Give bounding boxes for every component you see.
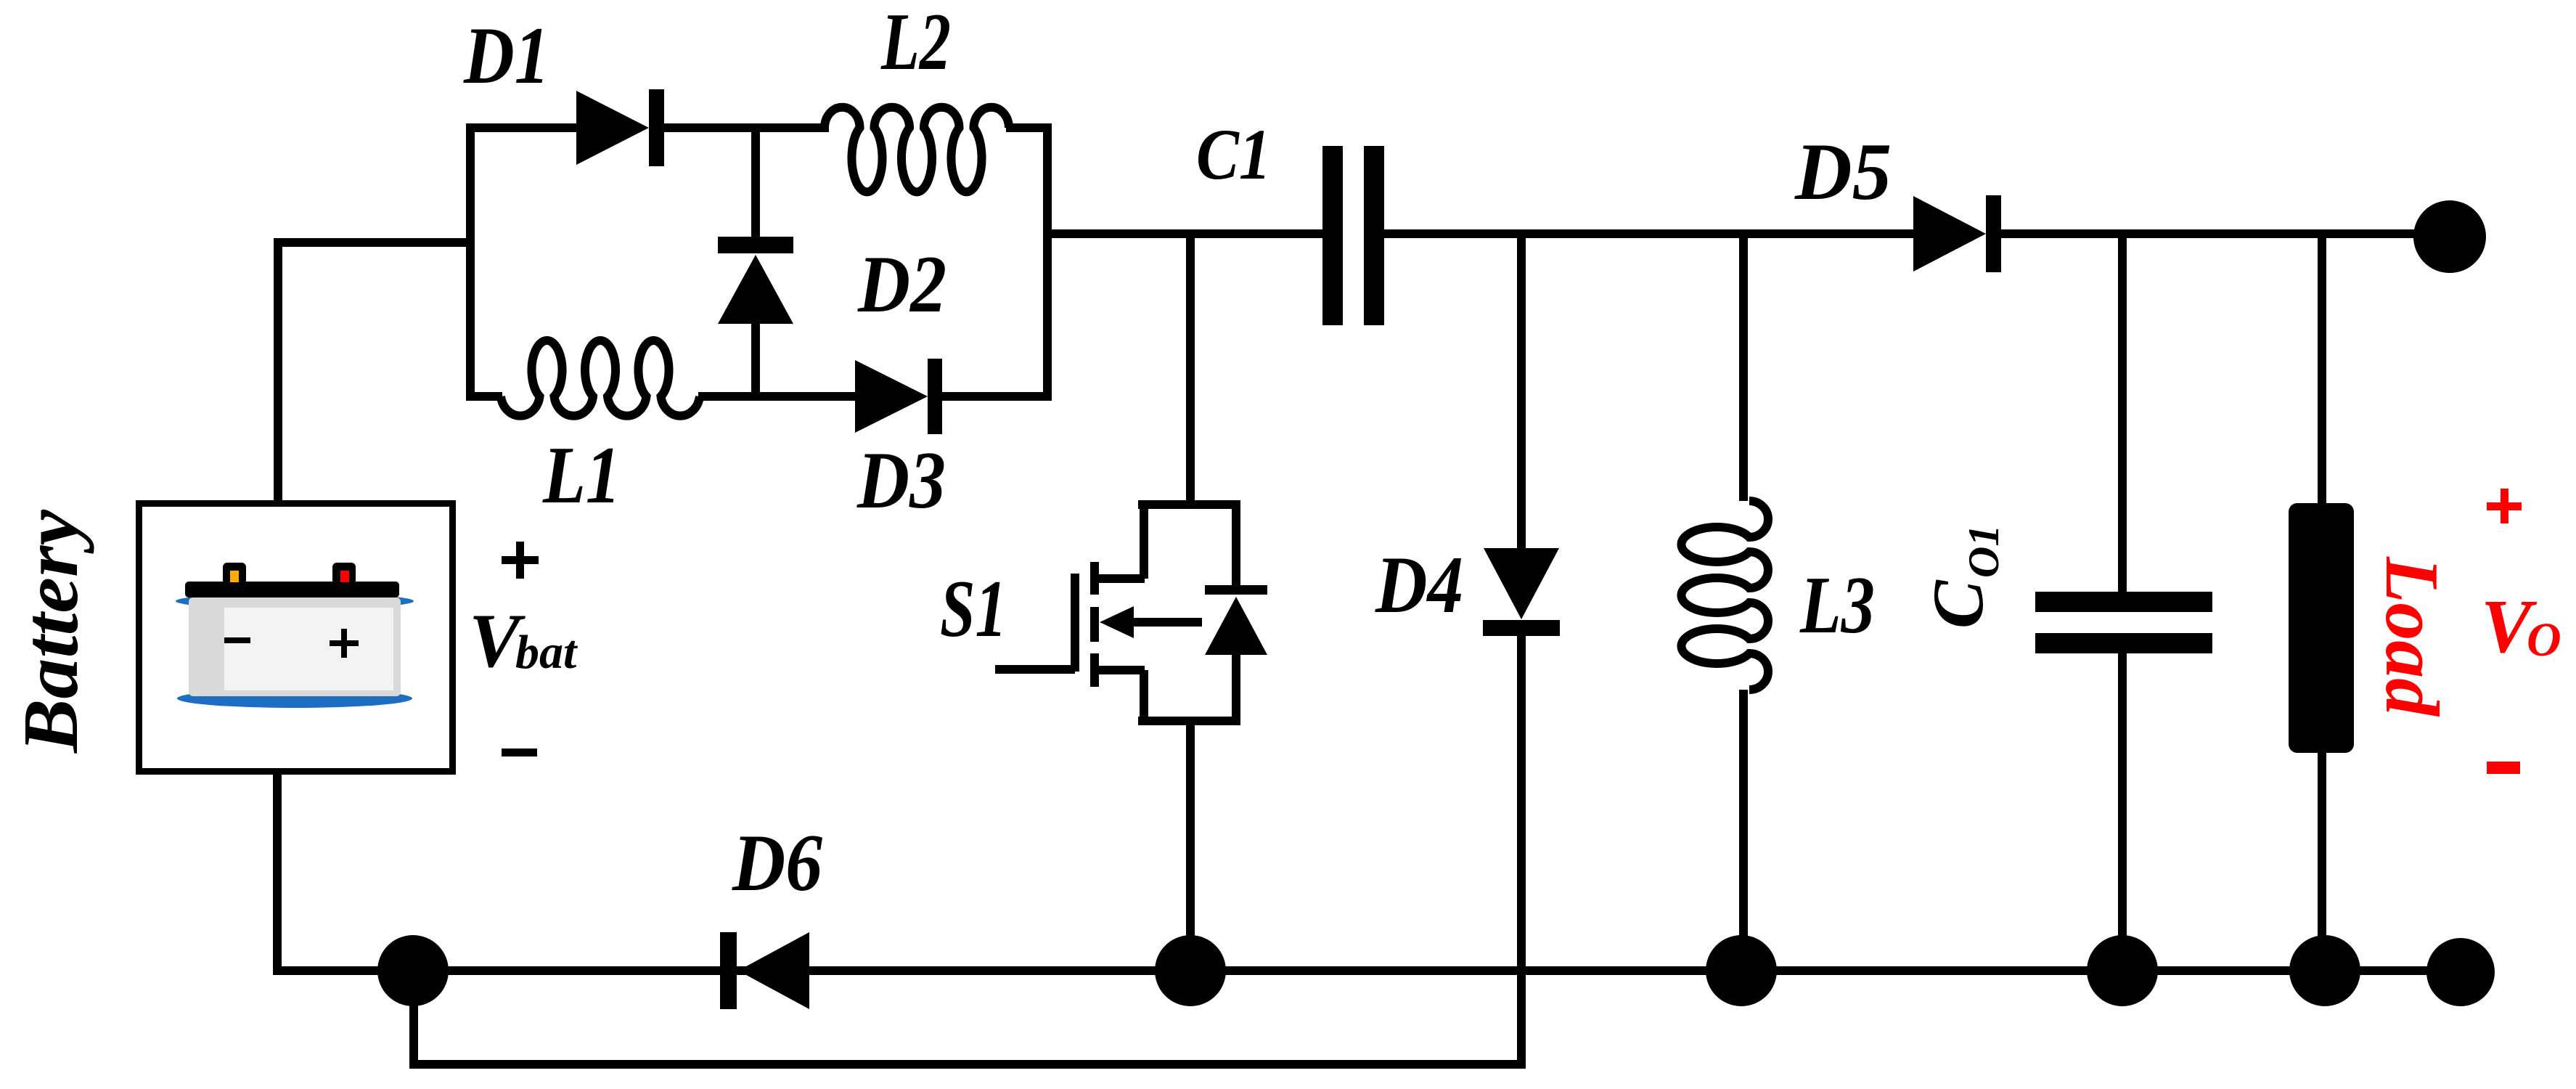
wire L2 to right vertical (1006, 123, 1052, 132)
svg-text:O1: O1 (1960, 525, 2008, 578)
wire load bottom vertical (2318, 748, 2326, 974)
svg-text:L3: L3 (1799, 560, 1875, 650)
svg-text:D3: D3 (856, 436, 946, 526)
label Vo plus (2487, 502, 2522, 510)
diode D4 (1484, 548, 1559, 619)
wire Co1 bottom vertical (2118, 651, 2127, 974)
svg-text:C1: C1 (1196, 114, 1271, 195)
transistor S1 top left leg (1140, 500, 1148, 579)
svg-text:bat: bat (515, 626, 578, 679)
transistor S1 channel segment top (1090, 562, 1099, 595)
diode D6 (720, 932, 737, 1009)
wire L3 top vertical (1739, 229, 1748, 501)
transistor S1 drain contact (1097, 574, 1145, 583)
svg-text:D1: D1 (463, 11, 549, 101)
junction battery bus (377, 935, 449, 1006)
capacitor C1 (1322, 146, 1343, 325)
wire L3 bottom vertical (1739, 690, 1748, 974)
transistor S1 channel segment mid (1090, 607, 1099, 642)
label Load (2370, 556, 2455, 717)
wire bottom return (414, 1060, 1526, 1069)
svg-text:D2: D2 (857, 240, 946, 330)
wire cell1 right vertical (1043, 123, 1052, 400)
wire D4 top vertical (1517, 229, 1526, 552)
wire battery feed horizontal (274, 238, 475, 247)
wire cell1 left vertical (466, 123, 475, 401)
wire battery bottom vertical (273, 772, 282, 975)
diode D5 (1913, 196, 1986, 272)
wire D1 to L2 with D2 tap (663, 123, 829, 132)
wire battery dot drop (409, 974, 418, 1069)
diode D2 (718, 237, 793, 253)
svg-text:L2: L2 (880, 0, 951, 87)
wire main bus segment 3 (2000, 229, 2417, 238)
diode D1 (576, 91, 649, 165)
svg-text:D4: D4 (1375, 540, 1463, 630)
svg-text:Battery: Battery (8, 509, 94, 754)
wire S1 gate lead (995, 665, 1075, 674)
label battery plus (502, 556, 539, 564)
wire S1 source (1186, 721, 1195, 974)
wire battery top vertical (274, 238, 282, 506)
wire S1 drain (1186, 229, 1195, 505)
wire D2 bottom vertical (751, 324, 760, 401)
transistor S1 body diode cathode wire (1232, 500, 1240, 590)
svg-text:O: O (2527, 613, 2561, 666)
wire D3 to right vertical (941, 392, 1052, 401)
transistor S1 substrate arrow (1124, 618, 1202, 627)
label battery minus (502, 749, 537, 756)
wire Co1 top vertical (2118, 229, 2127, 594)
junction load bus (2289, 935, 2360, 1006)
svg-text:D6: D6 (732, 818, 822, 908)
label Co1 (1918, 525, 2008, 629)
junction S1 source bus (1155, 935, 1226, 1006)
wire D4 bottom vertical (1517, 636, 1526, 1069)
label Vo minus (2487, 762, 2520, 774)
transistor S1 bottom left leg (1140, 670, 1148, 725)
wire bottom bus (274, 966, 2461, 975)
battery box (139, 504, 453, 772)
node output + terminal (2413, 200, 2486, 273)
svg-text:Load: Load (2370, 556, 2455, 717)
battery label (8, 509, 94, 754)
svg-text:C: C (1918, 579, 1998, 629)
capacitor Co1 (2035, 592, 2212, 612)
wire D2 top vertical (751, 123, 760, 237)
transistor S1 channel segment bottom (1090, 653, 1099, 687)
wire L1 to D3 (698, 392, 859, 401)
transistor S1 body diode (1205, 585, 1267, 595)
node output - terminal (2426, 938, 2495, 1006)
wire load top vertical (2318, 229, 2326, 508)
inductor L1 (501, 340, 700, 416)
battery icon (176, 593, 414, 609)
wire L1 entry (466, 392, 502, 401)
svg-text:S1: S1 (940, 564, 1007, 654)
transistor S1 body diode anode wire (1232, 650, 1240, 725)
svg-text:D5: D5 (1794, 127, 1892, 217)
transistor S1 bottom bracket (1138, 717, 1236, 725)
wire main bus segment 2 (1383, 229, 1918, 238)
wire D1 anode (466, 123, 581, 132)
inductor L2 (825, 107, 1009, 192)
diode D3 (855, 360, 928, 433)
junction L3 bus (1706, 935, 1777, 1006)
wire main bus segment 1 (1047, 229, 1323, 238)
svg-text:L1: L1 (542, 431, 621, 521)
transistor S1 gate bar (1071, 574, 1079, 672)
junction Co1 bus (2087, 935, 2158, 1006)
transistor S1 source contact (1097, 666, 1145, 674)
load resistor (2289, 503, 2354, 753)
transistor S1 top bracket (1138, 500, 1236, 509)
inductor L3 (1681, 501, 1768, 690)
